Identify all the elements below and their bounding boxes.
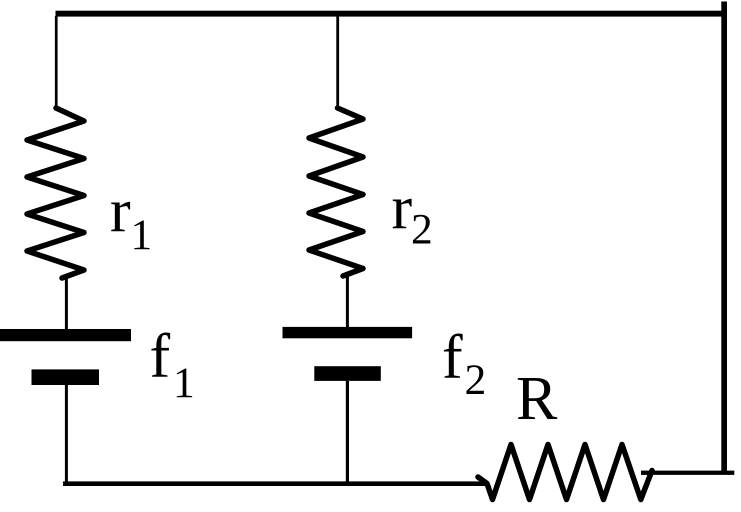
svg-text:f: f <box>150 323 171 391</box>
wire right vertical <box>721 2 727 472</box>
wire R to right <box>641 471 734 475</box>
svg-text:2: 2 <box>465 356 487 404</box>
resistor r2 <box>309 108 363 276</box>
svg-text:R: R <box>516 365 558 433</box>
svg-text:2: 2 <box>411 206 433 254</box>
svg-text:f: f <box>442 323 463 391</box>
svg-text:1: 1 <box>173 359 195 407</box>
svg-text:r: r <box>110 177 131 245</box>
battery f1 long plate <box>0 329 131 341</box>
wire r1 to f1 <box>65 275 68 330</box>
resistor R <box>478 445 652 500</box>
wire branch2 upper lead <box>336 16 339 109</box>
wire r2 to f2 <box>346 272 349 327</box>
battery f2 long plate <box>283 327 413 338</box>
wire bottom <box>63 481 487 486</box>
wire top <box>56 11 728 17</box>
svg-text:1: 1 <box>131 211 153 259</box>
svg-text:r: r <box>392 174 413 242</box>
wire f2 to bottom <box>346 381 349 484</box>
wire branch1 upper lead <box>55 16 58 109</box>
resistor r1 <box>27 108 84 278</box>
wire f1 to bottom <box>65 385 68 484</box>
battery f1 short plate <box>32 369 100 385</box>
battery f2 short plate <box>314 366 381 381</box>
